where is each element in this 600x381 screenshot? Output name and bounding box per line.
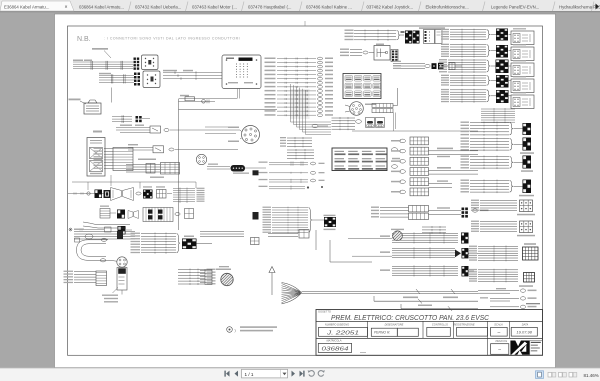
box disegnatore 2 [397, 328, 418, 336]
svg-text:): ) [235, 329, 236, 333]
round connector CN2 [350, 102, 364, 116]
svg-text:SCALA: SCALA [494, 322, 503, 326]
connector pinstack X1 [134, 58, 136, 60]
svg-text:MATRICOLA: MATRICOLA [327, 338, 342, 342]
checker block CB5 [496, 90, 509, 103]
wires right of lower column to grid [429, 210, 462, 212]
module U1 intermittenza [222, 55, 261, 89]
ladder strip left [104, 148, 113, 150]
buzzer TIMBRO [69, 99, 81, 101]
wire rows y232 mid [200, 231, 244, 233]
vertical pin ladder y163 [161, 163, 180, 175]
titleblock vertical div b [422, 321, 424, 338]
svg-text:Elektrofunktionssche...: Elektrofunktionssche... [426, 4, 469, 9]
bundle to grid CB [478, 269, 518, 271]
pin rows right of CN2 [372, 104, 393, 108]
checker block CB1 [496, 29, 508, 41]
waffle grid CAP [523, 247, 539, 260]
module ASR [513, 28, 526, 29]
stack wires right y171 [429, 169, 479, 171]
stop switch [117, 268, 127, 291]
row2 comb switch [143, 208, 173, 222]
wire stub below relays [111, 88, 113, 103]
manufacturer logo [510, 341, 529, 355]
logo side text [530, 341, 543, 356]
note with circled dot [227, 327, 233, 333]
svg-text:J. 22051: J. 22051 [326, 330, 359, 336]
plus-grid connector 1 [480, 200, 517, 202]
wire trio y64 [393, 62, 425, 64]
oval cluster row 3 [269, 179, 308, 181]
right bundle 2 [450, 44, 486, 46]
oval leads right of table [392, 148, 398, 152]
svg-text:PESO KG: PESO KG [496, 339, 508, 343]
top bundle y31 [354, 30, 396, 32]
row1 wire [68, 193, 110, 195]
wire row y100 with inline fuse [179, 98, 238, 100]
checker block CB3 [496, 60, 509, 74]
title block frame [316, 310, 543, 356]
row2 black checker [117, 210, 125, 219]
labels LTA LTB [150, 177, 164, 178]
wire rows y165 connector pair [126, 164, 160, 166]
box peso [491, 344, 509, 355]
right bundle 3 [448, 59, 486, 61]
svg-text:19.07.98: 19.07.98 [516, 330, 532, 335]
harness fan-out [282, 284, 301, 292]
long wire y131 [352, 130, 478, 132]
titleblock vertical div c [453, 321, 455, 338]
module link wires [509, 34, 512, 36]
wires y234 mid-right [268, 233, 298, 235]
title block divider 1 [316, 320, 543, 322]
black squares PP [432, 63, 437, 69]
bundle GL tetto 1 [392, 232, 458, 234]
oval cluster row 1 [269, 161, 308, 163]
oval lead y126 [312, 124, 318, 128]
black grid CA [182, 239, 197, 250]
row3 black checker [118, 226, 126, 235]
black lozenge connector GAV [231, 165, 246, 172]
svg-text:NUMERO DISEGNO: NUMERO DISEGNO [325, 322, 349, 326]
box data [511, 327, 537, 336]
label ATR [93, 131, 102, 133]
wires left of lower column [380, 207, 409, 209]
titleblock vertical div f [487, 338, 489, 355]
curving bundle y223 [83, 222, 130, 225]
grid y238 mid [251, 238, 260, 245]
svg-text:PREM. ELETTRICO: CRUSCOTTO: PREM. ELETTRICO: CRUSCOTTO PAN. 23.6 EVS… [331, 313, 490, 322]
svg-text:N.B.: N.B. [77, 36, 91, 43]
title block divider 2 [316, 337, 543, 339]
round connector CN1 [242, 126, 260, 144]
connector stack column [410, 137, 429, 145]
harness wire y182 [72, 181, 196, 183]
svg-text:037463 Kabel Motor (...: 037463 Kabel Motor (... [192, 4, 237, 9]
plus-grid connector 2 [480, 221, 517, 223]
right bundle 4 [450, 75, 486, 77]
svg-text:: I CONNETTORI SONO VISTI DAL: : I CONNETTORI SONO VISTI DAL LATO INGRE… [104, 36, 240, 40]
hatched circle GN tetto [393, 231, 403, 241]
label SCH PROT [419, 27, 445, 29]
svg-text:Hydraulikschema P23...: Hydraulikschema P23... [559, 4, 600, 9]
row1 bowtie connector [111, 188, 134, 201]
box controllo [427, 327, 451, 336]
bundle to CAP grid [478, 246, 518, 248]
long wire 2 [374, 300, 478, 302]
svg-text:–: – [498, 347, 501, 353]
svg-text:CONTROLLO: CONTROLLO [432, 322, 448, 326]
svg-text:Legende PanelEV-EVN...: Legende PanelEV-EVN... [491, 4, 539, 9]
shade box [290, 89, 310, 119]
svg-text:E36864 Kabel Armatu...: E36864 Kabel Armatu... [4, 4, 49, 9]
bundle GL tetto 3 [392, 265, 458, 267]
pin strip right of relay [391, 50, 398, 62]
checker block CB2 [496, 45, 508, 58]
ladder H y118 [332, 117, 356, 119]
wire row y127 with fuse and oval [116, 127, 150, 129]
loop harness [77, 240, 111, 260]
box registrazione [457, 327, 488, 336]
mini ladder y150 [287, 149, 314, 151]
wire bundle to relay K2 [99, 74, 134, 76]
right bundle 5 [450, 89, 486, 91]
flasher F1 box [87, 138, 105, 177]
connector pinstack X2 [134, 73, 137, 76]
svg-text:DATA: DATA [522, 322, 529, 326]
long wires to right [302, 291, 479, 293]
mini ladder y138 [287, 137, 312, 139]
relay K1 [142, 55, 159, 70]
right bundle BB1 [470, 138, 509, 140]
svg-text:037478 Hauptkabel (...: 037478 Hauptkabel (... [248, 4, 291, 9]
ladder E to black grid [141, 233, 176, 235]
relay box ORN [374, 46, 390, 61]
schematic border frame [68, 26, 543, 355]
stack wires right y151 [429, 150, 479, 152]
wire row y167 to lozenge [207, 166, 230, 168]
box scala [491, 327, 508, 336]
black block BB2 [523, 156, 532, 169]
wires module U1 left pins [163, 72, 222, 74]
box matricola [318, 343, 351, 352]
checker block pair top [405, 31, 412, 44]
bundle down-right y228 [422, 226, 446, 228]
wire label SU02 CAV 4.00 [92, 48, 108, 50]
oval cluster row 4 [269, 186, 305, 188]
wire bundle to relay K1 [73, 61, 133, 63]
row2 bowtie small [128, 211, 139, 219]
right bundle 1 [450, 29, 486, 31]
row1 grid B [156, 186, 165, 187]
big mid ladder to MTA [272, 207, 308, 209]
round connector CN2b [196, 154, 206, 164]
svg-text:036864 Kabel Armatu...: 036864 Kabel Armatu... [79, 4, 124, 9]
svg-text:036864: 036864 [322, 347, 349, 353]
black block BB1 [523, 138, 532, 151]
svg-text:1 / 1: 1 / 1 [245, 372, 254, 377]
svg-text:DISEGNATORE: DISEGNATORE [385, 322, 404, 326]
svg-text:81.46%: 81.46% [584, 373, 599, 378]
feeder wires to bundles [348, 238, 392, 240]
round connector CN4 [117, 257, 127, 267]
stack wires right y184 [429, 183, 453, 185]
box disegnatore [371, 328, 397, 336]
pin connector y64 [449, 63, 455, 70]
wire rows y232 [74, 231, 135, 233]
fuse panel grid [343, 74, 381, 99]
row1 checker A [143, 186, 152, 187]
row3 marks [69, 228, 72, 231]
wire pair y298 [490, 297, 519, 299]
long horizontal wire y109 [179, 109, 278, 111]
titleblock vertical div e [509, 321, 511, 338]
svg-text:×: × [65, 5, 68, 11]
row1 oval [136, 192, 141, 195]
black grid 30A [462, 208, 465, 211]
bus elbow to table [291, 119, 332, 135]
svg-text:PERNO R.: PERNO R. [374, 331, 390, 335]
svg-text:037486 Kabel Kabine ...: 037486 Kabel Kabine ... [306, 4, 352, 9]
oval cluster row 2 [269, 172, 308, 174]
wire pair y291 [478, 290, 519, 292]
row2 grid [185, 209, 194, 219]
ladder G y270 [178, 269, 205, 271]
box numero disegno [319, 327, 368, 336]
sheet centre tick [304, 21, 306, 26]
long vertical harness x178 [178, 99, 180, 230]
right bundle BB3 [470, 180, 509, 182]
black block BB3 [523, 180, 532, 194]
switch labels [102, 295, 118, 296]
wire elbow right bottom [316, 230, 478, 271]
small black stub x253 [253, 170, 259, 175]
lower pin column [409, 206, 429, 212]
bundle GL tetto 2 [392, 247, 455, 249]
centre ladder rows [277, 58, 316, 60]
legend table [332, 148, 387, 171]
titleblock vertical div a [367, 321, 369, 338]
black stub left of mid ladder [253, 212, 259, 220]
wire row y148 with fuse and oval [128, 147, 153, 149]
row2 oval [175, 213, 180, 216]
row1 black square [104, 190, 111, 198]
right big ladder y122 [470, 122, 509, 124]
row1 ladder [173, 188, 195, 190]
black block BB0 [523, 123, 532, 135]
white pin module [424, 30, 435, 44]
ladder below blocks y109 [481, 108, 515, 110]
right bundle BB2 [470, 156, 509, 158]
checker block CB4 [496, 75, 509, 88]
waffle grid CB bottom [524, 273, 535, 283]
row1 circle [87, 192, 90, 195]
module down stubs [237, 89, 239, 99]
svg-text:037482 Kabel Joystick...: 037482 Kabel Joystick... [367, 4, 414, 9]
wire rows y272 left [74, 271, 96, 273]
centre vertical bus [290, 84, 292, 119]
svg-text:037432 Kabel Ueberla...: 037432 Kabel Ueberla... [135, 4, 181, 9]
ladder small y116 [112, 116, 132, 118]
tiny note bottom right [526, 303, 540, 304]
svg-text:REGISTRAZIONE: REGISTRAZIONE [453, 322, 474, 326]
svg-text:OGGETTO: OGGETTO [318, 310, 331, 314]
sensor ladder y270 [200, 270, 212, 272]
wire pair y307 [490, 306, 519, 308]
ground symbol [271, 273, 273, 296]
svg-text:–: – [498, 330, 501, 336]
bowtie connector boxes below fuse panel [366, 118, 375, 128]
top bundle y50 [350, 49, 362, 51]
pin pair y231 [299, 230, 309, 239]
MTA black grid [324, 215, 336, 216]
titleblock vertical div d [487, 321, 489, 338]
black connector y116 [136, 116, 139, 119]
row2 rung box [100, 206, 109, 207]
row1 black grid [95, 190, 103, 199]
relay K2 [143, 71, 160, 88]
wire pair down from pin rows [393, 113, 395, 132]
